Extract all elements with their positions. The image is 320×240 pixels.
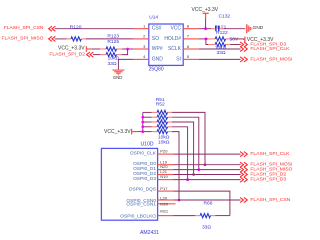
- wire R53 to D2 net: [172, 122, 194, 175]
- svg-text:U14: U14: [149, 15, 158, 21]
- svg-text:1: 1: [143, 24, 146, 29]
- port FLASH_SPI_CLK upper: [240, 46, 243, 51]
- wire bus to R51: [143, 111, 152, 113]
- svg-text:FLASH_SPI_D2: FLASH_SPI_D2: [49, 51, 85, 57]
- wire bus to R53: [143, 121, 152, 123]
- junction bus: [141, 125, 144, 128]
- wire D2 to port: [173, 174, 240, 176]
- pin M20 lead: [158, 203, 176, 205]
- svg-text:U10D: U10D: [140, 142, 153, 148]
- pin 4 lead: [133, 58, 149, 60]
- junction bus: [141, 130, 144, 133]
- pin P17 lead: [158, 190, 174, 192]
- pin M21 lead: [158, 215, 174, 217]
- wire CSN to pin1: [55, 28, 134, 30]
- svg-text:GND: GND: [152, 56, 164, 62]
- resistor R55 10k: [152, 131, 157, 133]
- junction HOLD# node: [205, 38, 208, 41]
- svg-text:3: 3: [143, 44, 146, 49]
- wire D1 to port: [173, 169, 240, 171]
- wire cap to GND flag: [224, 28, 246, 30]
- wire CLK to port: [173, 153, 240, 155]
- svg-text:OSPI0_D2: OSPI0_D2: [133, 171, 156, 177]
- ground GND flag right: [246, 24, 248, 33]
- svg-text:C132: C132: [218, 14, 230, 20]
- wire bus to R52: [143, 116, 152, 118]
- wire R to pin2: [86, 38, 134, 40]
- wire R66 to loop: [215, 215, 230, 217]
- pin P20 lead: [158, 153, 174, 155]
- svg-text:FLASH_SPI_D2: FLASH_SPI_D2: [250, 171, 286, 177]
- svg-text:P20: P20: [160, 148, 168, 153]
- ground GND: [113, 69, 125, 70]
- wire VCC to R123: [92, 48, 100, 50]
- resistor R66 33: [195, 215, 200, 217]
- wire pin8 to cap: [199, 28, 211, 30]
- wire MISO to R: [55, 38, 67, 40]
- svg-text:OSPI0_CSN1: OSPI0_CSN1: [126, 202, 156, 208]
- wire VCC node up: [205, 18, 207, 29]
- port FLASH_SPI_CLK: [240, 152, 243, 157]
- wire VCC bus vertical: [142, 112, 144, 131]
- resistor R52 10k: [152, 116, 157, 118]
- pin N19 lead: [158, 179, 174, 181]
- wire R55 to CSN0 net: [172, 132, 179, 200]
- junction D0: [204, 163, 207, 166]
- junction D3: [186, 178, 189, 181]
- svg-text:R120: R120: [70, 25, 82, 31]
- svg-text:VCC_+3.3V: VCC_+3.3V: [58, 45, 85, 51]
- pin 6 lead: [183, 48, 199, 50]
- svg-text:OSPI0_LBCLKO: OSPI0_LBCLKO: [120, 214, 156, 220]
- svg-text:OSPI0_D3: OSPI0_D3: [133, 176, 156, 182]
- pin 1 lead: [133, 28, 149, 30]
- svg-text:R123: R123: [107, 33, 119, 39]
- svg-text:7: 7: [187, 34, 190, 39]
- svg-text:L20: L20: [160, 196, 167, 201]
- svg-text:33Ω: 33Ω: [107, 61, 116, 67]
- svg-text:4: 4: [143, 54, 146, 59]
- svg-text:M20: M20: [160, 202, 169, 207]
- junction D1: [197, 168, 200, 171]
- svg-text:GND: GND: [113, 75, 123, 80]
- port FLASH_SPI_CSN: [240, 197, 243, 202]
- wire pin7 to node: [199, 38, 208, 40]
- port FLASH_SPI_MISO: [240, 167, 243, 172]
- junction D2: [192, 173, 195, 176]
- pin 5 lead: [183, 58, 199, 60]
- svg-text:25Q80: 25Q80: [149, 67, 164, 73]
- svg-text:HOLD#: HOLD#: [164, 36, 181, 42]
- svg-text:8: 8: [187, 24, 190, 29]
- svg-text:OSPI0_DQS: OSPI0_DQS: [129, 187, 156, 193]
- svg-text:R125: R125: [107, 39, 119, 45]
- svg-text:GND: GND: [253, 25, 264, 31]
- svg-text:10kΩ: 10kΩ: [108, 56, 120, 62]
- resistor R53 10k: [152, 121, 157, 123]
- svg-text:FLASH_SPI_D3: FLASH_SPI_D3: [250, 177, 286, 183]
- svg-text:FLASH_SPI_CLK: FLASH_SPI_CLK: [250, 46, 290, 52]
- resistor R54 10k: [152, 126, 157, 128]
- svg-text:33Ω: 33Ω: [216, 50, 225, 56]
- svg-text:R66: R66: [204, 201, 213, 207]
- resistor R122 33: [208, 44, 215, 46]
- svg-text:SCLK: SCLK: [168, 46, 182, 52]
- pin L19 lead: [158, 164, 174, 166]
- junction WP# node: [126, 48, 129, 51]
- wire bus to R54: [143, 126, 152, 128]
- svg-text:50V: 50V: [230, 37, 239, 43]
- wire R122 to port D3: [230, 44, 240, 46]
- pin L20 lead: [158, 199, 174, 201]
- pin L21 lead: [158, 174, 174, 176]
- junction VCC node: [204, 27, 207, 30]
- wire D2 to R125: [93, 54, 100, 56]
- pin 3 lead: [133, 48, 149, 50]
- capacitor C132: [211, 28, 215, 30]
- wire R54 to D3 net: [172, 127, 188, 180]
- svg-text:M21: M21: [160, 209, 169, 214]
- junction bus: [141, 116, 144, 119]
- svg-text:5: 5: [187, 54, 190, 59]
- resistor R121 10k: [208, 38, 215, 40]
- wire CSN0 to port: [173, 199, 240, 201]
- port FLASH_SPI_D3: [240, 42, 243, 47]
- svg-text:FLASH_SPI_MISO: FLASH_SPI_MISO: [2, 35, 44, 41]
- svg-text:33Ω: 33Ω: [202, 225, 211, 231]
- port FLASH_SPI_MOSI: [240, 162, 243, 167]
- IC U14 box: [149, 24, 183, 65]
- pin N20 lead: [158, 169, 174, 171]
- wire flag to bus: [137, 131, 143, 133]
- svg-text:10kΩ: 10kΩ: [158, 139, 170, 145]
- wire D3 to port: [173, 179, 240, 181]
- svg-text:10kΩ: 10kΩ: [215, 45, 227, 51]
- pin 8 lead: [183, 28, 199, 30]
- wire R52 to D1 net: [172, 117, 199, 169]
- wire R123 to pin3: [122, 48, 133, 50]
- resistor R123 10k: [100, 48, 106, 50]
- wire pin6 to port CLK: [199, 48, 241, 50]
- svg-text:R122: R122: [216, 30, 228, 36]
- wire DQS to loop: [173, 191, 230, 216]
- svg-text:FLASH_SPI_CSN: FLASH_SPI_CSN: [4, 25, 44, 31]
- wire R51 to D0 net: [172, 112, 205, 164]
- svg-text:N19: N19: [160, 174, 168, 179]
- port FLASH_SPI_D3: [240, 177, 243, 182]
- svg-text:VCC_+3.3V: VCC_+3.3V: [104, 129, 131, 135]
- svg-text:6: 6: [187, 44, 190, 49]
- svg-text:VCC_+3.3V: VCC_+3.3V: [192, 7, 219, 13]
- svg-text:FLASH_SPI_CLK: FLASH_SPI_CLK: [250, 151, 290, 157]
- svg-text:SO: SO: [152, 36, 159, 42]
- pin 2 lead: [133, 38, 149, 40]
- junction CSN0: [178, 199, 181, 202]
- svg-text:2: 2: [143, 34, 146, 39]
- svg-text:AM2431: AM2431: [140, 230, 159, 236]
- port FLASH_SPI_MOSI upper: [240, 57, 243, 62]
- wire bus to R55: [143, 131, 152, 133]
- IC U10D box: [101, 148, 157, 220]
- svg-text:R52: R52: [156, 101, 165, 107]
- junction bus: [141, 121, 144, 124]
- svg-text:FLASH_SPI_MOSI: FLASH_SPI_MOSI: [250, 56, 292, 62]
- wire pin4 to ground: [118, 59, 133, 69]
- svg-text:SI: SI: [176, 56, 181, 62]
- wire R121 to VCC flag: [230, 38, 244, 40]
- svg-text:OSPI0_CLK: OSPI0_CLK: [130, 151, 157, 157]
- power VCC_+3.3V: [244, 37, 246, 43]
- wire D0 to port: [173, 164, 240, 166]
- wire HOLD# node down: [206, 39, 208, 45]
- svg-text:VCC: VCC: [170, 26, 181, 32]
- port FLASH_SPI_D2: [240, 172, 243, 177]
- svg-text:CS#: CS#: [152, 26, 162, 32]
- resistor R125 33: [100, 54, 106, 56]
- resistor on MISO line: [67, 38, 71, 40]
- wire R125 up to WP# node: [122, 49, 128, 55]
- svg-text:FLASH_SPI_CSN: FLASH_SPI_CSN: [250, 197, 290, 203]
- resistor R51 10k: [152, 111, 157, 113]
- pin 7 lead: [183, 38, 199, 40]
- wire pin5 to port MOSI: [199, 58, 241, 60]
- wire LBCLKO to R66: [173, 215, 195, 217]
- svg-text:P17: P17: [160, 186, 168, 191]
- svg-text:WP#: WP#: [152, 46, 163, 52]
